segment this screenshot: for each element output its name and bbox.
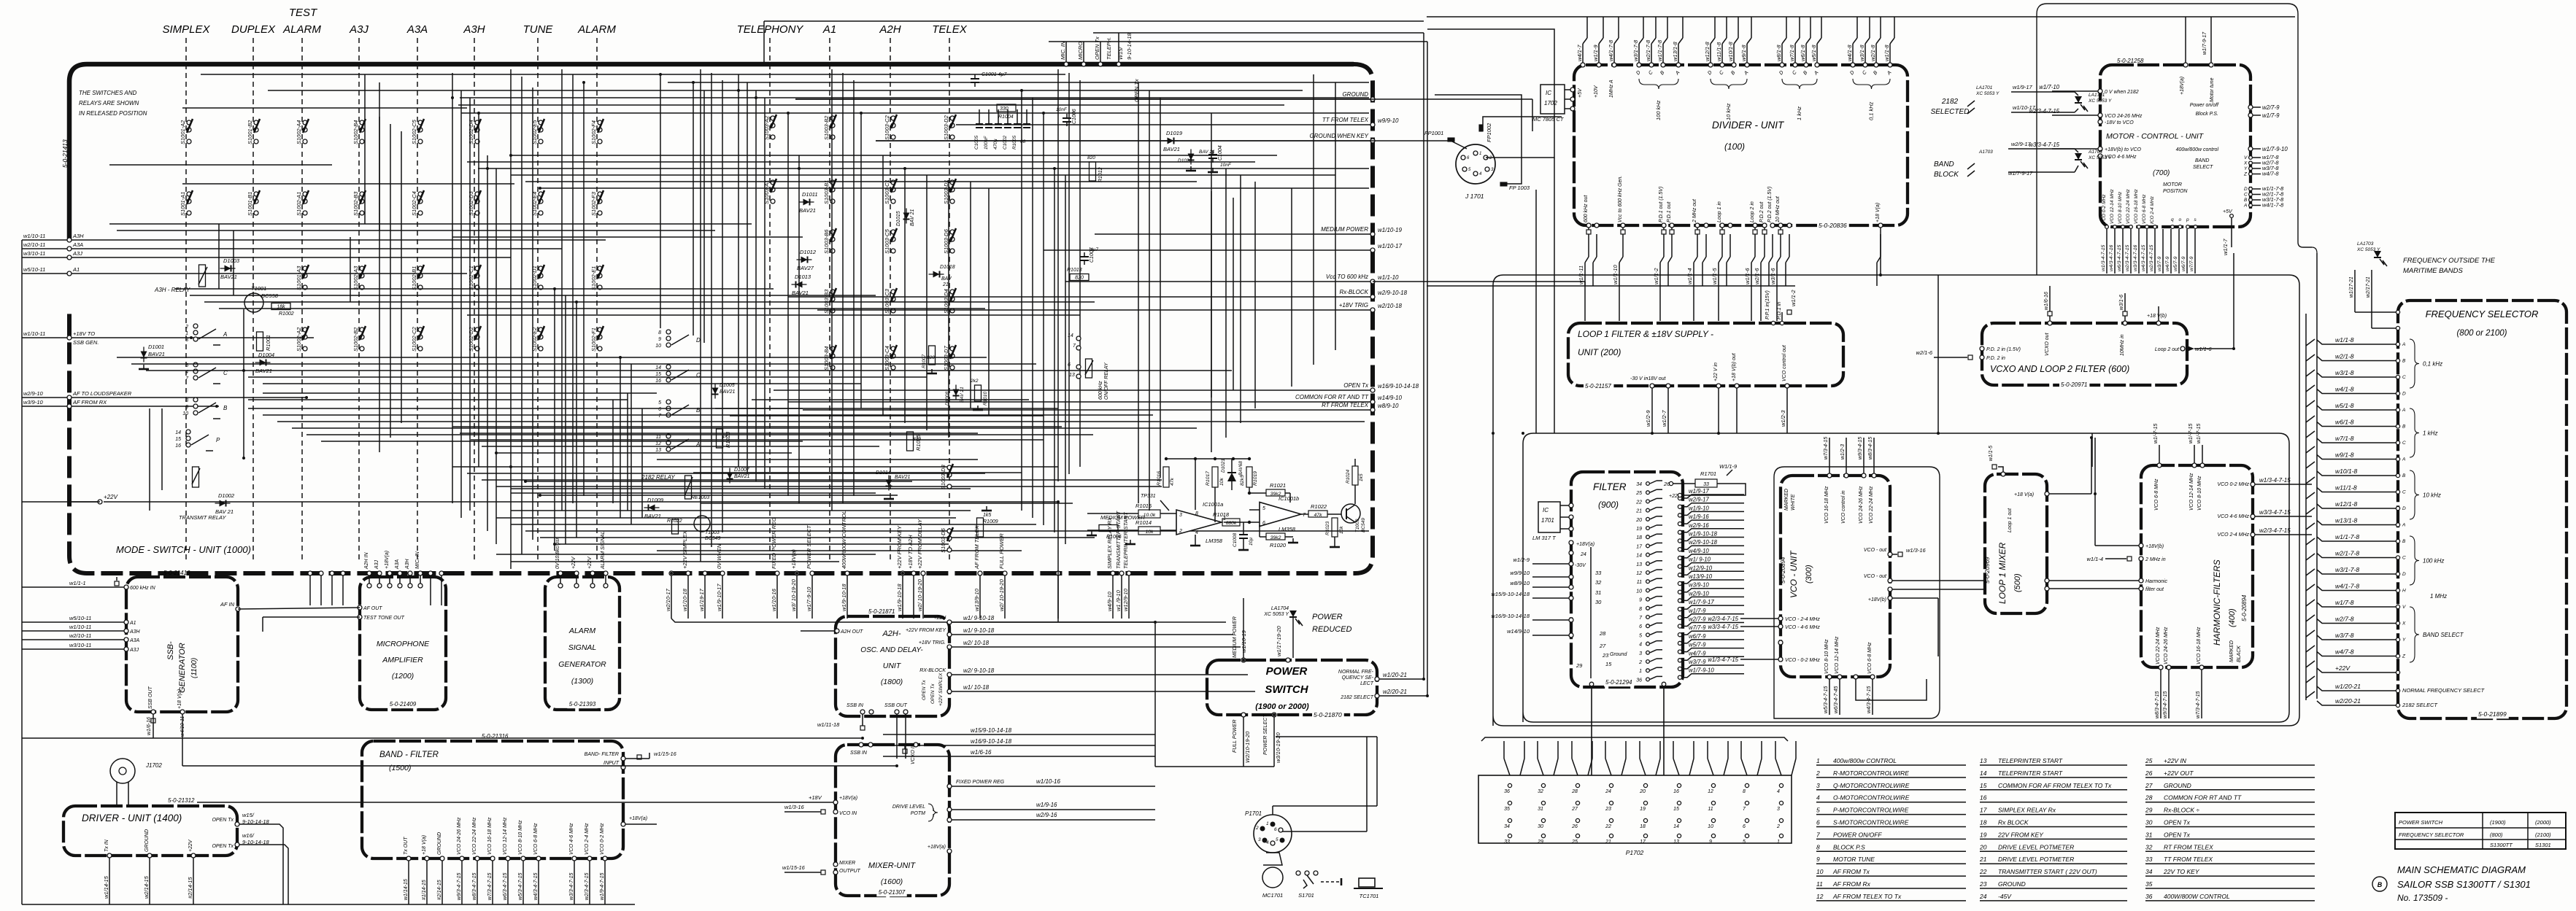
svg-text:w4/3-4-7-16: w4/3-4-7-16 [2109, 245, 2114, 271]
svg-text:SAILOR SSB S1300TT / S1301: SAILOR SSB S1300TT / S1301 [2397, 879, 2531, 890]
block BAND-FILTER (1500) [362, 741, 623, 858]
resistor R1025 [907, 432, 914, 451]
svg-text:VCO 22-24 MHz: VCO 22-24 MHz [2156, 627, 2161, 664]
svg-text:BAV21: BAV21 [792, 290, 809, 296]
svg-text:8: 8 [658, 330, 661, 336]
block DIVIDER-UNIT (100) [1574, 65, 1908, 225]
switch bank A [193, 324, 198, 328]
svg-text:BLOCK P.S: BLOCK P.S [1833, 843, 1865, 850]
svg-text:REDUCED: REDUCED [1312, 625, 1351, 634]
svg-text:A3A: A3A [129, 638, 140, 643]
svg-text:XC 5053 Y: XC 5053 Y [1263, 612, 1289, 617]
svg-text:(500): (500) [2013, 573, 2022, 592]
svg-text:600 kHz: 600 kHz [1098, 381, 1103, 400]
svg-text:w1/1-10: w1/1-10 [1378, 274, 1399, 281]
svg-text:BAV21: BAV21 [220, 274, 237, 280]
top right long bus [1427, 16, 2295, 18]
block ALARM SIGNAL GENERATOR (1300) [545, 577, 620, 710]
right edge wires [795, 98, 1373, 100]
svg-text:15: 15 [1673, 807, 1679, 812]
svg-text:36: 36 [1504, 789, 1510, 794]
svg-text:P.P.1 in(15V): P.P.1 in(15V) [1765, 290, 1770, 319]
svg-text:FREQUENCY OUTSIDE THE: FREQUENCY OUTSIDE THE [2403, 257, 2496, 265]
svg-text:S1003-B4: S1003-B4 [823, 346, 830, 371]
svg-text:C1008: C1008 [1233, 532, 1238, 547]
svg-text:AF FROM Rx: AF FROM Rx [1832, 880, 1871, 888]
svg-text:SSB-: SSB- [166, 641, 175, 660]
svg-text:w1/9-10-18: w1/9-10-18 [896, 584, 903, 611]
svg-text:w3/3-4-7-15: w3/3-4-7-15 [2259, 509, 2291, 516]
svg-text:TELEPRINTER START: TELEPRINTER START [1998, 769, 2063, 777]
svg-text:4: 4 [1195, 530, 1198, 535]
svg-text:D1011: D1011 [802, 191, 818, 198]
svg-text:w7/1-8: w7/1-8 [1789, 44, 1795, 61]
svg-text:A2H-: A2H- [882, 629, 901, 638]
svg-text:21: 21 [942, 282, 949, 287]
svg-text:AF IN: AF IN [220, 601, 235, 608]
svg-text:w1/7-9: w1/7-9 [2262, 112, 2280, 119]
svg-text:w2/1-6: w2/1-6 [1754, 268, 1760, 284]
svg-text:S1001-B2: S1001-B2 [247, 120, 253, 144]
svg-text:+22V IN: +22V IN [2164, 757, 2187, 764]
svg-text:9: 9 [1639, 598, 1642, 603]
svg-text:22: 22 [1635, 500, 1642, 505]
svg-text:w1/7-9-17: w1/7-9-17 [2008, 170, 2033, 177]
svg-text:31: 31 [2145, 831, 2153, 838]
diode [886, 476, 892, 491]
svg-text:OPEN Tx: OPEN Tx [212, 818, 234, 823]
svg-text:MICROPHONE: MICROPHONE [377, 640, 430, 648]
svg-text:+22V OUT: +22V OUT [2164, 769, 2194, 777]
svg-text:400W/800W CONTROL: 400W/800W CONTROL [2164, 893, 2230, 900]
svg-text:LM358: LM358 [1206, 538, 1223, 544]
svg-text:P1701: P1701 [1245, 810, 1262, 817]
block DRIVER-UNIT (1400) [63, 806, 237, 856]
svg-text:OPEN Tx: OPEN Tx [930, 683, 936, 704]
svg-text:+18V TO A2H: +18V TO A2H [907, 535, 914, 569]
svg-text:GROUND WHEN KEY: GROUND WHEN KEY [1310, 133, 1369, 139]
svg-text:MEDIUM POWER: MEDIUM POWER [1233, 616, 1238, 658]
svg-text:1k: 1k [722, 434, 728, 439]
fp beads [1448, 138, 1454, 142]
svg-text:FIXED POWER REG: FIXED POWER REG [956, 780, 1005, 785]
svg-text:VCO - 4-6 MHz: VCO - 4-6 MHz [1785, 625, 1820, 630]
svg-text:6: 6 [1743, 824, 1746, 829]
svg-text:5: 5 [1639, 633, 1642, 638]
svg-text:0V WHEN: 0V WHEN [716, 543, 722, 569]
resistor R1018 [1222, 519, 1240, 526]
svg-text:5-0-20971: 5-0-20971 [2061, 381, 2087, 388]
diode D1003 [220, 265, 236, 272]
svg-text:w2/10-11: w2/10-11 [69, 632, 91, 639]
svg-text:DRIVE LEVEL POTMETER: DRIVE LEVEL POTMETER [1998, 843, 2074, 850]
svg-text:J1702: J1702 [145, 762, 162, 769]
svg-text:1: 1 [185, 331, 188, 336]
svg-text:X: X [2402, 621, 2406, 627]
svg-text:+18V(a): +18V(a) [790, 549, 797, 569]
svg-text:S1002-C2: S1002-C2 [411, 326, 417, 352]
svg-text:AF FROM TELEX TO Tx: AF FROM TELEX TO Tx [1832, 893, 1902, 900]
switch S1003-C1 [884, 179, 897, 204]
svg-text:POWER SWITCH: POWER SWITCH [2399, 819, 2443, 826]
dashed mode line x=414 [301, 38, 303, 562]
svg-text:18: 18 [1980, 819, 1987, 826]
svg-text:2: 2 [1638, 660, 1642, 665]
svg-text:TELEX: TELEX [932, 23, 968, 36]
svg-text:S1002-D2: S1002-D2 [468, 326, 474, 352]
harmonic right pins [2251, 482, 2255, 486]
svg-text:DRIVE LEVEL POTMETER: DRIVE LEVEL POTMETER [1998, 856, 2074, 863]
svg-text:R1024: R1024 [1346, 469, 1351, 484]
svg-text:100 kHz: 100 kHz [2423, 558, 2444, 565]
svg-text:0,1 kHz: 0,1 kHz [1868, 101, 1875, 120]
svg-text:14: 14 [175, 430, 181, 435]
svg-text:5-0-21393: 5-0-21393 [569, 701, 596, 708]
svg-text:w1/1-7-8: w1/1-7-8 [1657, 39, 1663, 61]
svg-text:BAND SELECT: BAND SELECT [2423, 632, 2464, 638]
svg-text:330: 330 [1000, 106, 1009, 112]
svg-text:14: 14 [655, 365, 661, 371]
svg-text:w8/3-4-7-15: w8/3-4-7-15 [2155, 691, 2160, 718]
svg-text:29: 29 [1576, 662, 1583, 669]
svg-text:w13/9-10: w13/9-10 [1689, 573, 1713, 580]
svg-text:GROUND: GROUND [1998, 880, 2026, 888]
svg-text:9-10-14-18: 9-10-14-18 [1126, 32, 1133, 60]
feed lines [1087, 513, 1124, 514]
svg-text:w1/3-4-7-15: w1/3-4-7-15 [2101, 245, 2106, 271]
block MICROPHONE AMPLIFIER (1200) [360, 577, 446, 710]
svg-text:w1/14-15: w1/14-15 [103, 875, 109, 899]
svg-text:+18 V(b) out: +18 V(b) out [1732, 352, 1737, 381]
svg-text:w1/-7-15: w1/-7-15 [2189, 424, 2194, 443]
svg-text:10MHz in: 10MHz in [2120, 334, 2125, 356]
svg-text:H: H [2402, 589, 2406, 594]
svg-text:R1002: R1002 [279, 311, 294, 317]
svg-text:13: 13 [1636, 562, 1642, 567]
svg-text:21: 21 [1979, 856, 1987, 863]
svg-text:33: 33 [1504, 840, 1510, 845]
wire bundle top [201, 74, 1065, 75]
svg-text:SIMPLEX RELAY RX: SIMPLEX RELAY RX [1106, 516, 1113, 569]
freq selector bottom two [2396, 689, 2399, 692]
svg-text:w1/10-17: w1/10-17 [2013, 104, 2036, 111]
svg-text:w2/ 10-19-20: w2/ 10-19-20 [917, 578, 923, 611]
svg-text:OPEN Tx: OPEN Tx [1094, 36, 1100, 60]
svg-text:16: 16 [655, 379, 661, 384]
filter drop wires [1591, 686, 1592, 775]
diode D1002 [215, 500, 231, 507]
dashed mode line x=737 [537, 38, 539, 562]
svg-text:Rx BLOCK: Rx BLOCK [1998, 819, 2029, 826]
svg-text:-30 V in: -30 V in [1630, 376, 1648, 381]
svg-text:10k: 10k [1219, 477, 1225, 486]
svg-text:XC 5053 Y: XC 5053 Y [1975, 91, 2000, 96]
svg-text:Y: Y [2244, 166, 2248, 171]
svg-text:5-0-20894: 5-0-20894 [1780, 557, 1786, 584]
svg-text:BAV: BAV [941, 276, 952, 282]
resistor [1099, 525, 1118, 532]
svg-text:V: V [2402, 605, 2406, 610]
diode [953, 385, 960, 400]
svg-text:w4/1-7-8: w4/1-7-8 [2262, 202, 2284, 209]
svg-text:w1/3-16: w1/3-16 [1906, 547, 1927, 554]
svg-text:14: 14 [1980, 769, 1987, 777]
svg-text:AF TO LOUDSPEAKER: AF TO LOUDSPEAKER [72, 390, 132, 397]
block MIXER-UNIT (1600) [836, 745, 949, 896]
svg-text:1: 1 [1777, 840, 1780, 845]
switch S1003-B4 [823, 345, 836, 371]
svg-text:VCO 0-2 MHz: VCO 0-2 MHz [2102, 194, 2107, 224]
svg-text:FREQUENCY SELECTOR: FREQUENCY SELECTOR [2399, 831, 2464, 838]
svg-text:VCO - out: VCO - out [1864, 548, 1887, 553]
svg-text:-45V: -45V [1998, 893, 2012, 900]
svg-text:filter out: filter out [2145, 587, 2164, 592]
svg-text:LECT: LECT [1360, 681, 1374, 686]
svg-text:SIMPLEX: SIMPLEX [162, 23, 210, 36]
switch S1002-A1 [296, 190, 309, 216]
svg-text:A: A [2243, 203, 2247, 209]
enclosure inner left [1523, 433, 2289, 722]
svg-text:VCO 22-24 MHz: VCO 22-24 MHz [472, 817, 477, 855]
svg-text:OSC. AND DELAY-: OSC. AND DELAY- [860, 646, 923, 654]
switch S1002-C2 [411, 326, 424, 352]
loop1 filter bottom pins [1650, 384, 1654, 388]
freq selector braces [2410, 339, 2419, 388]
svg-text:w1/7-9: w1/7-9 [1689, 608, 1706, 614]
svg-text:A3J: A3J [129, 648, 139, 653]
divider top pins [1581, 63, 1585, 67]
svg-text:D1008: D1008 [945, 391, 950, 406]
svg-text:S1002-A4: S1002-A4 [296, 120, 302, 144]
svg-text:POSITION: POSITION [2163, 189, 2188, 194]
diode [712, 384, 719, 399]
svg-text:R1013: R1013 [1067, 268, 1082, 273]
svg-text:2: 2 [1179, 529, 1182, 534]
block FREQUENCY SELECTOR (800 or 2100) [2398, 301, 2567, 718]
svg-text:2k2: 2k2 [970, 379, 979, 384]
svg-text:w5/10-11: w5/10-11 [23, 266, 45, 273]
filter left pins [1569, 540, 1573, 545]
svg-text:B: B [2402, 425, 2406, 430]
divider bottom long wires [1373, 281, 1585, 282]
svg-text:6: 6 [1639, 624, 1642, 629]
svg-text:D: D [2402, 572, 2406, 577]
svg-text:P1702: P1702 [1626, 849, 1644, 856]
svg-text:w1/ 9-10-18: w1/ 9-10-18 [963, 627, 995, 634]
svg-text:w8/9-10: w8/9-10 [1378, 403, 1399, 409]
svg-text:A1: A1 [72, 266, 80, 273]
svg-text:(800): (800) [2490, 831, 2503, 838]
ground [143, 365, 144, 369]
svg-text:DRIVE LEVEL: DRIVE LEVEL [892, 805, 925, 810]
svg-text:3: 3 [1777, 807, 1780, 812]
svg-text:AF FROM RX: AF FROM RX [72, 399, 107, 406]
svg-text:5-0-21157: 5-0-21157 [1585, 383, 1611, 389]
svg-text:R1004: R1004 [998, 115, 1014, 120]
svg-text:+22V: +22V [2335, 664, 2351, 672]
wire bundle vertical [452, 73, 453, 503]
svg-text:w1/7-8: w1/7-8 [2335, 599, 2354, 606]
svg-text:w1/ 9-10-18: w1/ 9-10-18 [963, 615, 995, 621]
svg-text:B: B [2244, 198, 2248, 203]
svg-text:w2/3-4-7-15: w2/3-4-7-15 [2259, 527, 2291, 534]
svg-text:w3/7-9: w3/7-9 [1689, 659, 1706, 665]
svg-text:D1015: D1015 [896, 211, 901, 226]
svg-text:15: 15 [1605, 661, 1612, 667]
svg-text:S1003-D2: S1003-D2 [943, 115, 949, 140]
svg-text:w1/10-11: w1/10-11 [23, 233, 45, 239]
connector J1702 [110, 759, 135, 783]
ssb gen right pin AF IN [236, 607, 240, 611]
svg-text:+22V SIMPLEX: +22V SIMPLEX [938, 672, 944, 706]
svg-text:w2/1-8: w2/1-8 [2335, 353, 2354, 360]
svg-text:2182 RELAY: 2182 RELAY [641, 474, 675, 481]
svg-text:(1500): (1500) [389, 764, 411, 772]
svg-text:LM 317 T: LM 317 T [1532, 535, 1557, 541]
svg-text:31: 31 [1538, 807, 1543, 812]
svg-text:FP1001: FP1001 [1424, 130, 1443, 136]
svg-text:R1012: R1012 [1098, 167, 1103, 182]
svg-text:w2/17-21: w2/17-21 [2366, 276, 2371, 298]
svg-text:15: 15 [175, 437, 181, 442]
svg-text:w2/9-17: w2/9-17 [1689, 497, 1709, 503]
capacitor [971, 78, 979, 80]
switch S1002-A3 [352, 265, 366, 290]
block VCXO AND LOOP2 FILTER (600) [1982, 323, 2187, 385]
svg-text:+18V(b) to VCO: +18V(b) to VCO [2105, 147, 2142, 152]
svg-text:TUNE: TUNE [523, 23, 554, 36]
resistor R1019 [1246, 467, 1252, 487]
svg-text:AF FROM Tx: AF FROM Tx [1832, 868, 1870, 875]
switch S1003-D1 [943, 179, 956, 204]
svg-text:24: 24 [1979, 893, 1987, 900]
switch S1002-F4 [590, 119, 603, 144]
svg-text:w2/3-4-7-15: w2/3-4-7-15 [2125, 245, 2130, 271]
power switch pins [1241, 658, 1246, 662]
drops to SSB/mic/alarm [367, 571, 371, 575]
svg-text:(1200): (1200) [392, 672, 414, 681]
svg-text:VCO 6-8 MHz: VCO 6-8 MHz [1867, 642, 1873, 674]
svg-text:o: o [2179, 217, 2182, 222]
svg-text:w1/1-5: w1/1-5 [1989, 446, 1994, 461]
misc right wires [1880, 228, 1881, 275]
svg-text:(1300): (1300) [571, 677, 593, 686]
mixer left pins [833, 800, 838, 805]
svg-text:VCO 6-8 MHz: VCO 6-8 MHz [533, 823, 539, 855]
svg-text:C: C [2402, 490, 2406, 495]
svg-text:VCO control in: VCO control in [1841, 490, 1846, 524]
svg-text:VCO 16-18 MHz: VCO 16-18 MHz [2134, 189, 2139, 224]
svg-text:27: 27 [2145, 782, 2153, 789]
svg-text:w3/1-6: w3/1-6 [2119, 295, 2124, 310]
svg-text:w11/1-8: w11/1-8 [1716, 42, 1722, 61]
capacitor C1007 [1080, 256, 1089, 257]
svg-text:25: 25 [1635, 491, 1642, 496]
dashed mode line x=818 [596, 38, 598, 562]
svg-text:5-0-21258: 5-0-21258 [2117, 58, 2144, 64]
svg-text:+5V: +5V [1578, 88, 1583, 98]
svg-text:w1/1-4: w1/1-4 [1686, 268, 1693, 284]
svg-text:w2/ 10-19-20: w2/ 10-19-20 [998, 578, 1005, 611]
switch S1002-C5 [411, 119, 424, 144]
svg-text:W1/1-9: W1/1-9 [1719, 463, 1738, 470]
svg-text:1k5: 1k5 [1359, 473, 1364, 481]
svg-text:w4/3-4-7-15: w4/3-4-7-15 [2141, 245, 2146, 271]
svg-text:32: 32 [1538, 789, 1543, 794]
svg-text:A1703: A1703 [2088, 150, 2102, 155]
band filter right pin [621, 822, 625, 826]
svg-text:w1/1-7-8: w1/1-7-8 [2335, 533, 2359, 540]
dashed mode line x=1301 [949, 38, 950, 562]
diode D1004 [255, 360, 271, 366]
svg-text:30: 30 [1595, 599, 1602, 605]
svg-text:(2000): (2000) [2535, 819, 2551, 826]
svg-text:Loop 2 out: Loop 2 out [2155, 347, 2180, 352]
svg-text:+22 V in: +22 V in [1713, 363, 1719, 381]
svg-text:S1003-C1: S1003-C1 [884, 179, 890, 204]
svg-text:COMMON FOR RT AND TT: COMMON FOR RT AND TT [1295, 394, 1369, 400]
svg-text:w1/9-17: w1/9-17 [2013, 84, 2033, 90]
svg-text:BAV21: BAV21 [720, 389, 736, 395]
svg-text:BAV21: BAV21 [895, 475, 911, 480]
svg-text:22: 22 [1605, 824, 1611, 829]
svg-text:D1021: D1021 [1221, 458, 1226, 473]
svg-text:P.D.1 in: P.D.1 in [1777, 302, 1782, 319]
svg-text:SSB GEN.: SSB GEN. [73, 339, 99, 346]
diode [141, 347, 147, 363]
svg-text:w1/10-16: w1/10-16 [771, 588, 777, 611]
switch S1001-B2 [247, 119, 260, 144]
svg-text:w2/ 9-10-18: w2/ 9-10-18 [963, 667, 995, 674]
svg-text:11: 11 [656, 435, 661, 440]
svg-text:25: 25 [1571, 840, 1578, 845]
svg-text:LA1704: LA1704 [1271, 606, 1289, 611]
svg-text:Motor tune: Motor tune [2210, 77, 2215, 102]
svg-text:SSB IN: SSB IN [847, 703, 864, 708]
svg-text:LA1703: LA1703 [2357, 241, 2374, 247]
svg-text:w1/10-18: w1/10-18 [682, 588, 688, 611]
svg-text:BAND: BAND [1934, 160, 1954, 168]
svg-text:S-MOTORCONTROLWIRE: S-MOTORCONTROLWIRE [1833, 819, 1909, 826]
svg-text:1: 1 [1479, 152, 1481, 156]
svg-text:Rx-BLOCK: Rx-BLOCK [1339, 289, 1368, 295]
svg-text:9: 9 [1816, 856, 1820, 863]
svg-text:+18V TO: +18V TO [73, 330, 95, 337]
svg-text:R1018: R1018 [1213, 511, 1230, 518]
svg-text:w2/9-10: w2/9-10 [23, 390, 44, 397]
svg-text:w6/1-8: w6/1-8 [2335, 419, 2354, 426]
svg-text:W2/10-19-20: W2/10-19-20 [1244, 731, 1251, 763]
svg-text:w1/3-4-7-15: w1/3-4-7-15 [1708, 656, 1738, 663]
svg-text:MARKED: MARKED [1784, 489, 1789, 511]
loop1 mixer pins [2001, 472, 2005, 476]
svg-text:OUTPUT: OUTPUT [839, 869, 861, 874]
svg-text:O-MOTORCONTROLWIRE: O-MOTORCONTROLWIRE [1833, 794, 1910, 802]
svg-text:R1017: R1017 [1206, 471, 1211, 486]
svg-text:B: B [2402, 473, 2406, 478]
svg-text:34: 34 [1504, 824, 1510, 829]
svg-text:RELAYS ARE SHOWN: RELAYS ARE SHOWN [79, 100, 139, 106]
svg-text:UNIT: UNIT [883, 662, 902, 670]
svg-text:BAV68: BAV68 [1238, 461, 1243, 476]
svg-text:w4/3-4-7-15: w4/3-4-7-15 [533, 873, 539, 900]
svg-text:TT FROM TELEX: TT FROM TELEX [2164, 856, 2213, 863]
svg-text:w1/20-21: w1/20-21 [1383, 672, 1407, 678]
svg-text:+22V FROM KEY: +22V FROM KEY [896, 525, 903, 569]
svg-text:9: 9 [658, 337, 661, 342]
svg-text:TC1701: TC1701 [1360, 893, 1379, 899]
svg-text:21: 21 [1605, 840, 1611, 845]
